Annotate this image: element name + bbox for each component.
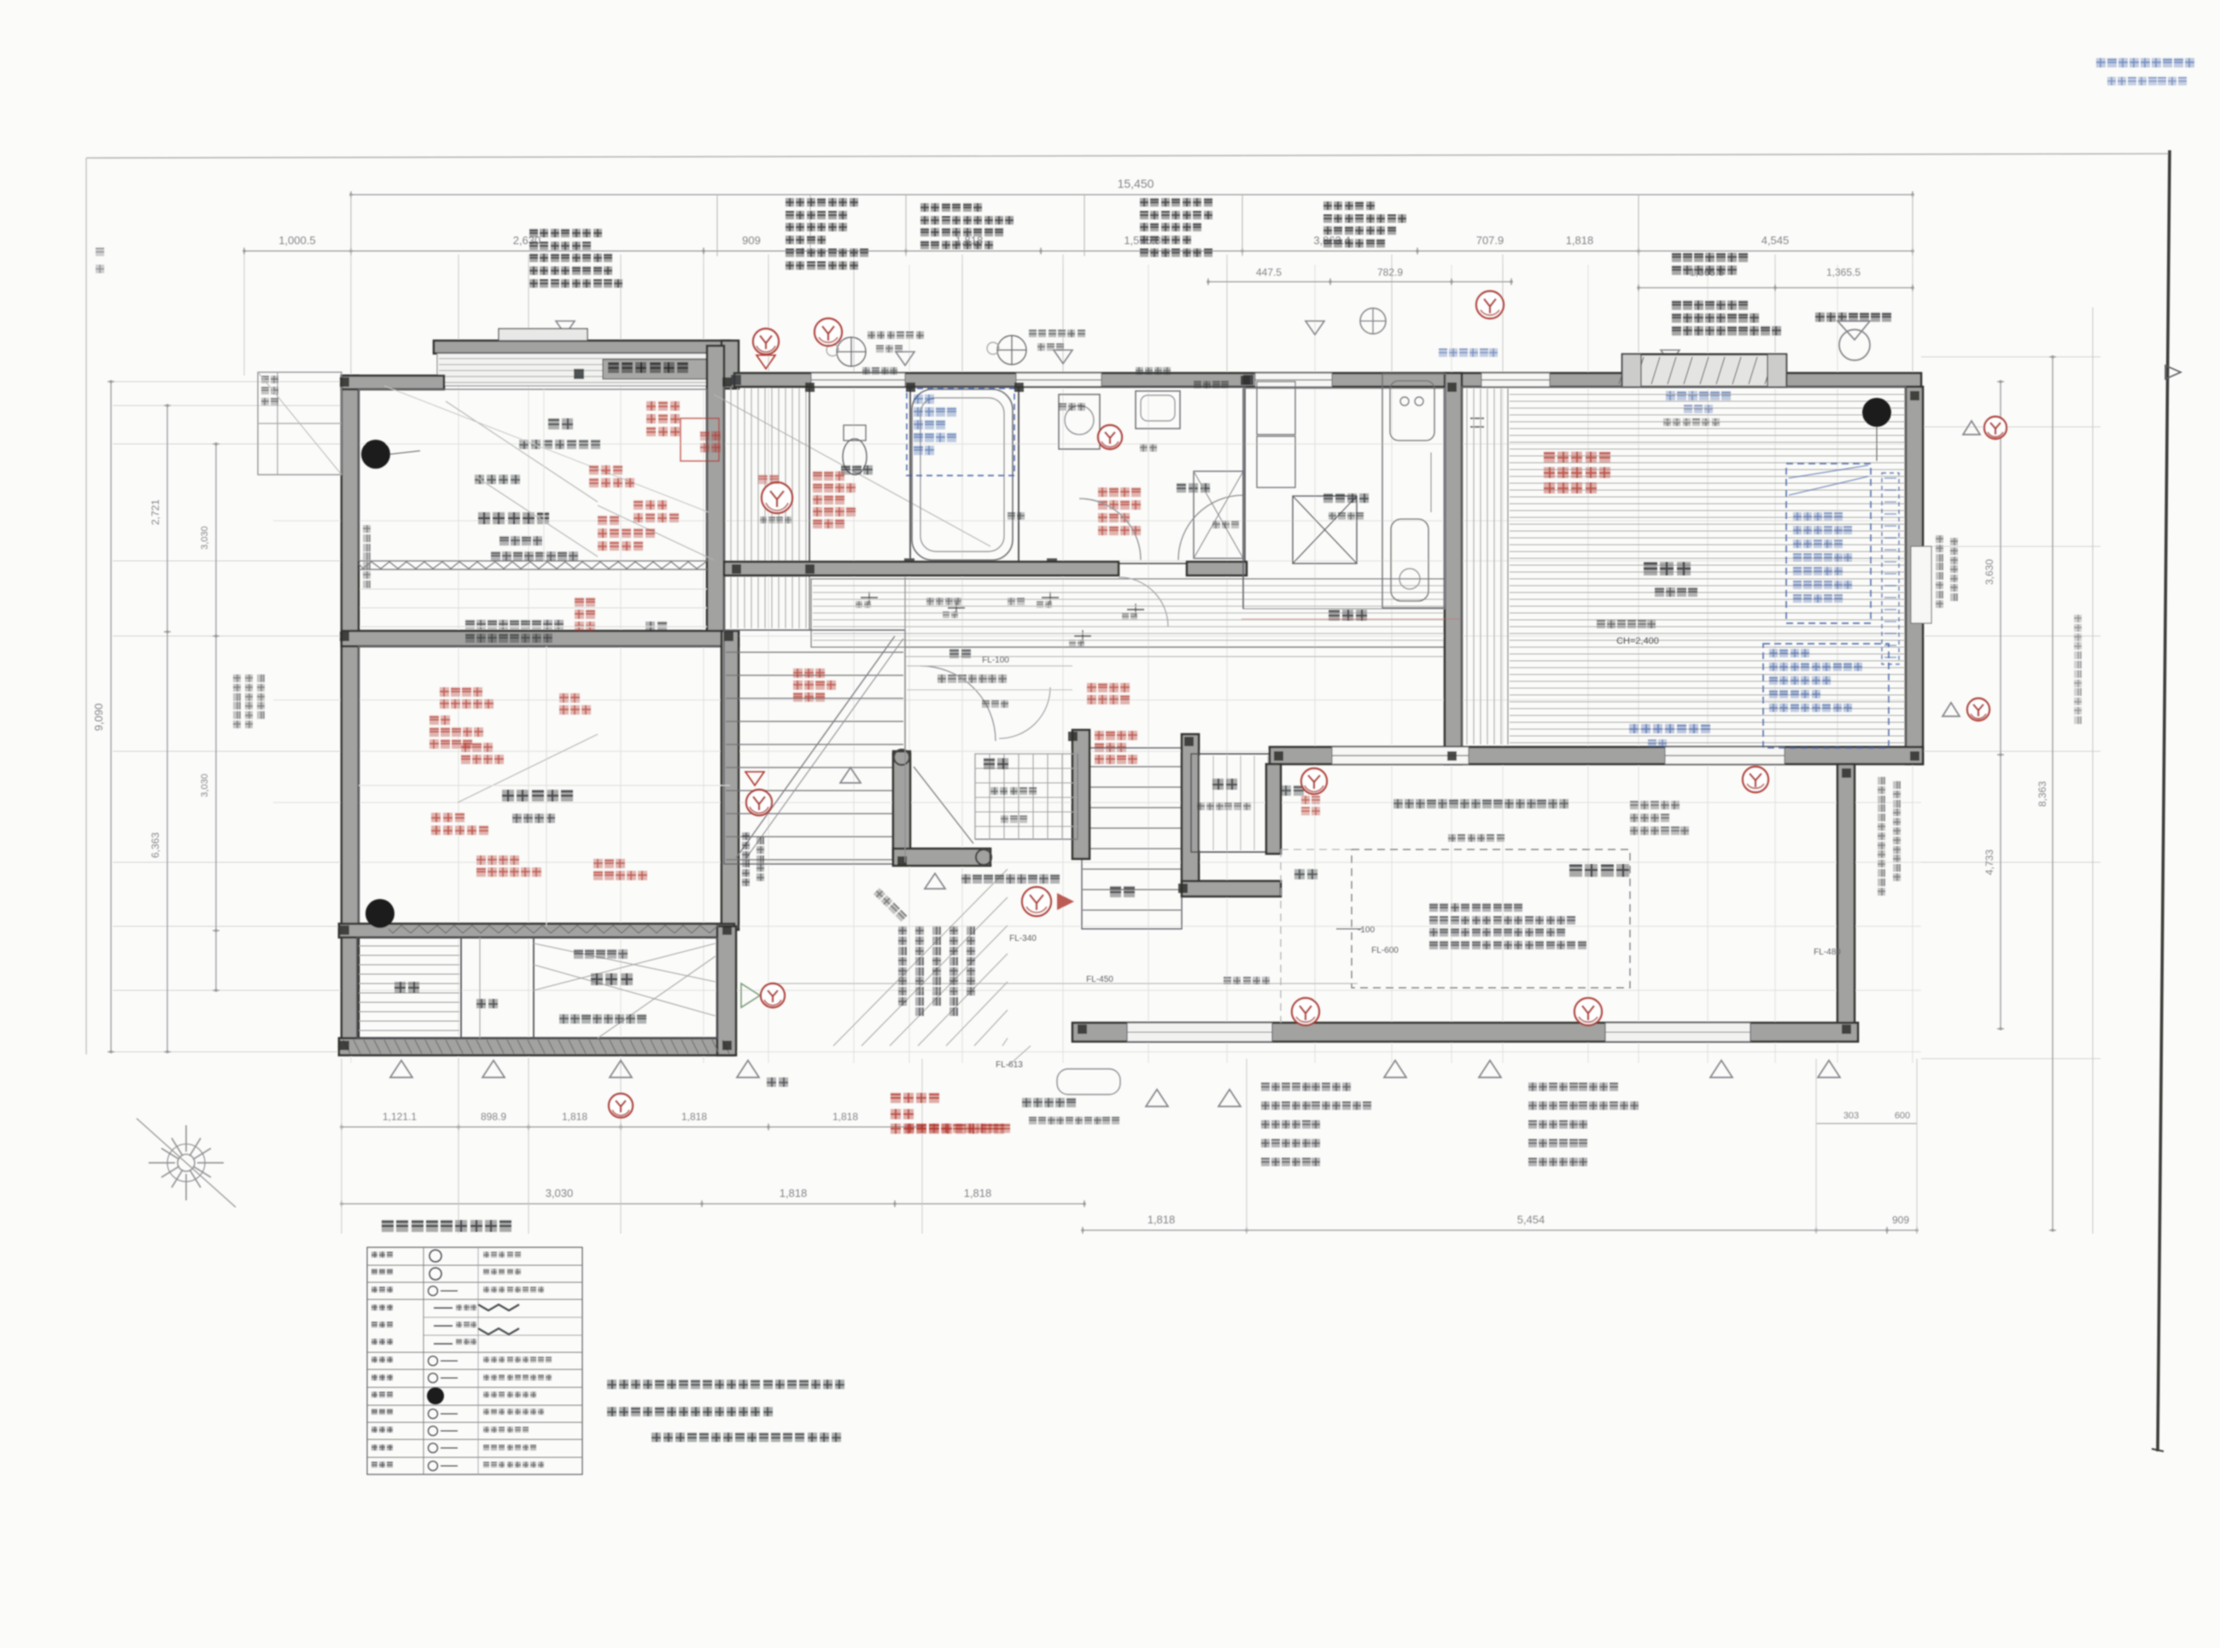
svg-text:1,818: 1,818 bbox=[681, 1111, 707, 1123]
svg-text:FL-480: FL-480 bbox=[1814, 948, 1841, 957]
svg-text:FL-100: FL-100 bbox=[982, 656, 1009, 665]
svg-text:5,454: 5,454 bbox=[1517, 1213, 1545, 1226]
svg-text:6,363: 6,363 bbox=[149, 832, 161, 858]
svg-text:4,733: 4,733 bbox=[1983, 849, 1995, 875]
svg-text:3,630: 3,630 bbox=[1983, 559, 1995, 585]
svg-text:1,818: 1,818 bbox=[832, 1111, 858, 1123]
svg-text:1,818: 1,818 bbox=[562, 1111, 587, 1123]
svg-text:909: 909 bbox=[1892, 1214, 1909, 1226]
svg-text:782.9: 782.9 bbox=[1377, 266, 1403, 278]
svg-text:1,818: 1,818 bbox=[1148, 1213, 1176, 1226]
svg-text:1,121.1: 1,121.1 bbox=[383, 1111, 417, 1123]
svg-text:8,363: 8,363 bbox=[2036, 781, 2048, 807]
svg-text:3,030: 3,030 bbox=[200, 526, 210, 550]
svg-text:1,818: 1,818 bbox=[780, 1187, 808, 1200]
svg-text:-100: -100 bbox=[1358, 925, 1375, 935]
svg-text:FL-450: FL-450 bbox=[1086, 975, 1113, 984]
svg-text:2,721: 2,721 bbox=[149, 499, 161, 525]
svg-text:CH=2,400: CH=2,400 bbox=[1616, 636, 1659, 646]
svg-text:FL-340: FL-340 bbox=[1009, 934, 1037, 943]
svg-text:FL-613: FL-613 bbox=[996, 1060, 1023, 1070]
svg-text:303: 303 bbox=[1843, 1111, 1859, 1121]
svg-text:1,365.5: 1,365.5 bbox=[1826, 266, 1861, 278]
svg-text:447.5: 447.5 bbox=[1256, 266, 1282, 278]
svg-text:9,090: 9,090 bbox=[92, 703, 105, 732]
svg-text:909: 909 bbox=[742, 234, 761, 247]
svg-text:4,545: 4,545 bbox=[1761, 234, 1790, 247]
svg-text:3,030: 3,030 bbox=[200, 773, 210, 797]
svg-text:898.9: 898.9 bbox=[481, 1111, 506, 1123]
svg-text:707.9: 707.9 bbox=[1476, 234, 1504, 247]
svg-text:1,818: 1,818 bbox=[964, 1187, 992, 1200]
svg-text:3,030: 3,030 bbox=[546, 1187, 574, 1200]
svg-text:600: 600 bbox=[1895, 1111, 1910, 1121]
svg-text:15,450: 15,450 bbox=[1118, 177, 1154, 190]
svg-text:FL-600: FL-600 bbox=[1371, 946, 1399, 955]
svg-text:1,000.5: 1,000.5 bbox=[278, 234, 315, 247]
svg-text:1,818: 1,818 bbox=[1566, 234, 1594, 247]
